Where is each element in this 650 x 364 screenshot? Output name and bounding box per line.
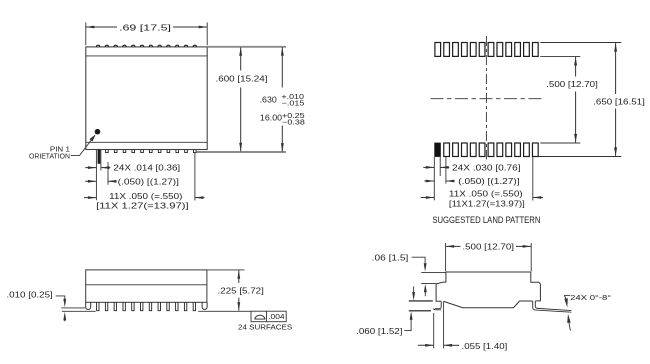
side view left end lead (J hook) [86, 302, 91, 309]
pin 1 right edge extension line [100, 150, 102, 171]
seating plane line right [198, 310, 252, 312]
extension line from body top right [207, 269, 245, 271]
pad 2 extension line [445, 157, 447, 184]
dimension .600 [15.24] [240, 47, 242, 70]
svg-text:24X .014 [0.36]: 24X .014 [0.36] [113, 163, 180, 173]
pin 1 leader line [71, 136, 95, 156]
svg-text:.055 [1.40]: .055 [1.40] [462, 341, 508, 351]
dimension .060 [1.52] [413, 286, 415, 296]
top view lower pin stubs (11, pins 2-12) [106, 150, 197, 153]
land pattern lower pads (11, pads 2-12) [444, 143, 450, 157]
land pattern extension lines right [540, 42, 621, 44]
pad 1 left edge extension line [433, 157, 435, 200]
dimension (.050) [(1.27)] pitch [85, 180, 96, 182]
dimension .055 [1.40] [418, 344, 434, 346]
land pattern upper pads (12) [435, 43, 441, 57]
extension line right of pins bottom (gray) [197, 151, 286, 153]
svg-text:(.050) [(1.27)]: (.050) [(1.27)] [118, 176, 179, 186]
svg-text:.225 [5.72]: .225 [5.72] [218, 285, 264, 295]
seating plane line left [62, 310, 96, 312]
cap top extension line left [421, 271, 446, 273]
profile of surface symbol [255, 315, 266, 319]
dimension .650 [16.51] vertical [615, 43, 617, 94]
svg-text:.010 [0.25]: .010 [0.25] [6, 289, 52, 299]
end view bottom recess outline [444, 301, 533, 308]
top view lower seam line [86, 141, 207, 143]
svg-text:[11X 1.27(=13.97)]: [11X 1.27(=13.97)] [96, 201, 189, 211]
svg-text:.06 [1.5]: .06 [1.5] [372, 252, 409, 262]
pin 1 left edge extension line [95, 150, 97, 200]
svg-text:.060 [1.52]: .060 [1.52] [356, 326, 402, 336]
svg-text:.004: .004 [268, 312, 285, 321]
dimension (.050) [(1.27)] pad pitch [424, 180, 434, 182]
ledge extension line left [421, 283, 436, 285]
end view right gull-wing lead [533, 301, 572, 312]
svg-text:24X .030 [0.76]: 24X .030 [0.76] [452, 162, 521, 172]
end view dimension .500 [12.70] [446, 245, 461, 247]
dimension 24X .014 [0.36] [85, 167, 96, 169]
svg-text:ORIETATION: ORIETATION [29, 151, 70, 160]
dimension .69 [17.5] [86, 26, 117, 28]
svg-text:.630: .630 [260, 96, 278, 105]
dimension .630 / 16.00 with tolerances [281, 47, 283, 87]
end view left gull-wing lead [435, 301, 441, 308]
svg-text:−0.38: −0.38 [282, 117, 305, 126]
end view dimension .500 [12.70] extension lines [445, 243, 447, 272]
svg-text:.500 [12.70]: .500 [12.70] [546, 79, 598, 89]
svg-text:SUGGESTED LAND PATTERN: SUGGESTED LAND PATTERN [432, 215, 540, 225]
svg-text:.69 [17.5]: .69 [17.5] [119, 22, 171, 32]
svg-text:24 SURFACES: 24 SURFACES [238, 323, 292, 332]
svg-text:−.015: −.015 [282, 98, 305, 107]
end view foot bottom extension line left [409, 310, 431, 312]
top view package body [86, 47, 207, 150]
top view upper pin bumps (12) [96, 45, 196, 47]
coplanarity feature control frame [251, 311, 286, 322]
svg-text:(.050) [(1.27)]: (.050) [(1.27)] [458, 176, 519, 186]
pin 1 orientation dot [95, 129, 101, 135]
side view package body [86, 270, 207, 302]
dimension .055 [1.40] extension lines [433, 313, 435, 348]
side view pin stubs (12) [97, 302, 196, 310]
svg-text:11X .050 (=.550): 11X .050 (=.550) [449, 189, 523, 199]
side view lid seam line [86, 284, 207, 286]
dimension 11X .050 (=.550) arrows [84, 197, 96, 199]
pad 12 extension line [532, 157, 534, 201]
svg-text:.500 [12.70]: .500 [12.70] [462, 241, 514, 251]
dimension .225 [5.72] [238, 270, 240, 283]
svg-text:24X 0°-8°: 24X 0°-8° [570, 293, 611, 302]
land pattern vertical centerline [485, 36, 487, 160]
svg-text:.650 [16.51]: .650 [16.51] [593, 96, 645, 106]
end view body outline [436, 272, 540, 301]
land pattern pad 1 (filled) [434, 143, 441, 157]
svg-text:.600 [15.24]: .600 [15.24] [216, 74, 268, 84]
dimension 11X .050 (=.550) arrows land pattern [421, 197, 435, 199]
pin 1 lead (filled, highlighted) [98, 150, 101, 164]
land pattern horizontal centerline [431, 98, 542, 100]
pad 1 right edge extension line [439, 157, 441, 176]
end view body bottom extension line left [409, 300, 433, 302]
side view right end lead (J hook) [202, 302, 207, 309]
dimension .500 [12.70] vertical [575, 57, 577, 77]
svg-text:16.00: 16.00 [260, 114, 283, 123]
lead foot bottom extension line left [61, 307, 85, 309]
dimension 24X .030 [0.76] [423, 166, 434, 168]
pin 12 extension line [194, 153, 196, 201]
svg-text:11X .050 (=.550): 11X .050 (=.550) [109, 191, 182, 201]
pin 2 extension line [107, 162, 109, 185]
svg-text:[11X1.27(=13.97)]: [11X1.27(=13.97)] [449, 199, 525, 209]
dimension .69 [17.5] extension lines [85, 22, 87, 45]
extension line right of body top (gray) [207, 46, 286, 48]
top view upper seam line [86, 55, 207, 57]
